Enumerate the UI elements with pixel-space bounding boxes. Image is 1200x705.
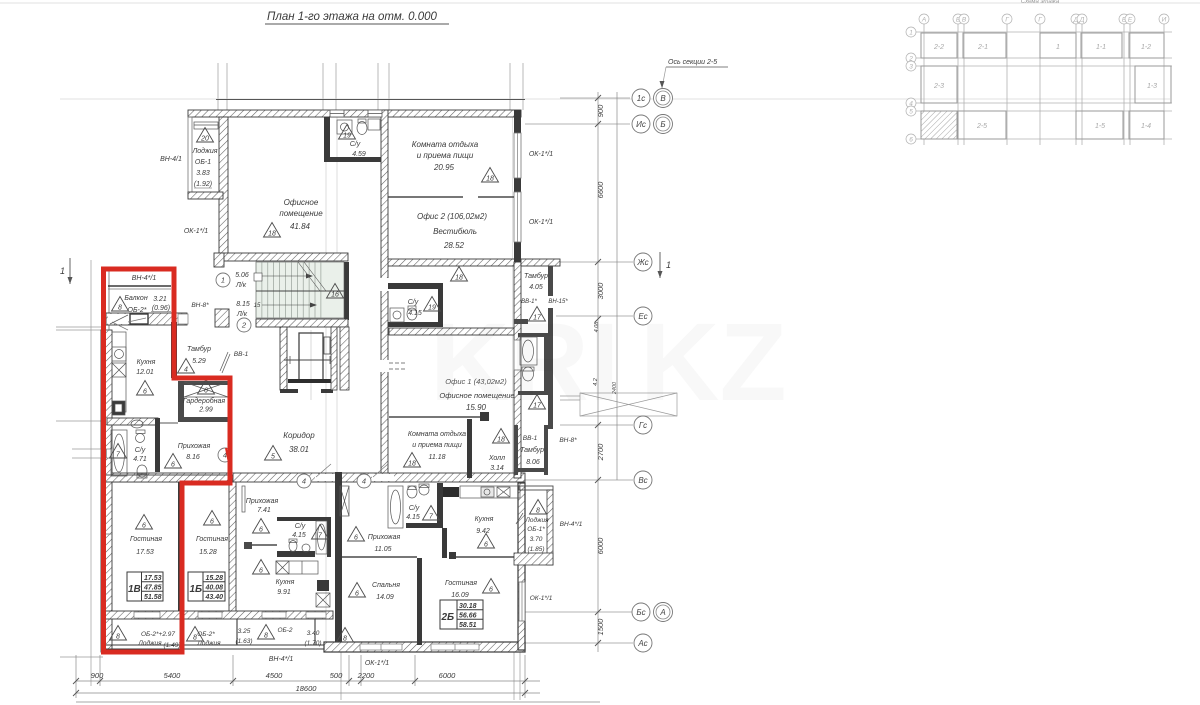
svg-text:ВН-8*: ВН-8*	[559, 437, 577, 444]
svg-text:С/у: С/у	[135, 447, 146, 454]
svg-text:1с: 1с	[637, 94, 645, 103]
svg-text:4.05: 4.05	[529, 284, 543, 291]
svg-text:1Б: 1Б	[190, 584, 203, 595]
svg-text:18: 18	[408, 461, 416, 468]
svg-text:С/у: С/у	[409, 505, 420, 512]
svg-text:47.85: 47.85	[143, 585, 162, 592]
svg-text:3.21: 3.21	[153, 296, 167, 303]
svg-text:19: 19	[343, 133, 351, 140]
svg-text:Б: Б	[660, 120, 665, 129]
svg-text:15.28: 15.28	[206, 575, 224, 582]
svg-text:KZ: KZ	[640, 301, 787, 424]
svg-text:900: 900	[596, 104, 605, 117]
svg-text:5: 5	[271, 454, 275, 461]
svg-text:2.99: 2.99	[198, 407, 213, 414]
svg-text:4500: 4500	[266, 671, 284, 680]
svg-text:3000: 3000	[596, 282, 605, 300]
svg-text:(1.49): (1.49)	[164, 642, 181, 649]
svg-text:500: 500	[330, 671, 343, 680]
svg-text:41.84: 41.84	[290, 222, 311, 231]
svg-text:Лоджия: Лоджия	[191, 147, 217, 155]
svg-text:8: 8	[343, 636, 347, 643]
svg-text:Г: Г	[1005, 17, 1009, 24]
svg-text:18: 18	[497, 437, 505, 444]
svg-text:8.06: 8.06	[526, 459, 540, 466]
svg-text:ВВ-1: ВВ-1	[523, 435, 538, 442]
svg-text:56.66: 56.66	[459, 613, 477, 620]
svg-text:ОК-1*/1: ОК-1*/1	[184, 228, 208, 235]
svg-text:ОК-1*/1: ОК-1*/1	[529, 151, 553, 158]
svg-text:6: 6	[909, 137, 913, 144]
svg-text:ОБ-2: ОБ-2	[277, 627, 292, 634]
svg-text:58.51: 58.51	[459, 622, 477, 629]
svg-text:1В: 1В	[128, 584, 141, 595]
svg-text:Бс: Бс	[636, 608, 645, 617]
svg-text:8: 8	[536, 508, 540, 515]
svg-text:16.09: 16.09	[451, 592, 469, 599]
svg-text:А: А	[921, 17, 926, 24]
svg-text:1-1: 1-1	[1096, 44, 1106, 51]
svg-text:Прихожая: Прихожая	[178, 443, 211, 450]
svg-text:ВН-4/1: ВН-4/1	[160, 156, 182, 163]
svg-text:Схема этажа: Схема этажа	[1021, 0, 1060, 5]
svg-text:6: 6	[484, 542, 488, 549]
svg-text:20.95: 20.95	[433, 163, 455, 172]
svg-text:4.15: 4.15	[292, 532, 306, 539]
svg-text:3.14: 3.14	[490, 465, 504, 472]
svg-text:17.53: 17.53	[144, 575, 162, 582]
svg-text:14.09: 14.09	[376, 594, 394, 601]
svg-text:С/у: С/у	[408, 299, 419, 306]
svg-text:Офисное: Офисное	[284, 198, 319, 207]
svg-text:9.91: 9.91	[277, 589, 291, 596]
svg-text:2Б: 2Б	[441, 612, 455, 623]
svg-text:Балкон: Балкон	[124, 295, 148, 302]
svg-text:ОБ-1: ОБ-1	[195, 159, 211, 166]
svg-text:и приема пищи: и приема пищи	[412, 442, 462, 449]
svg-text:4: 4	[362, 477, 366, 486]
svg-text:В: В	[962, 17, 967, 24]
svg-text:Ис: Ис	[636, 120, 646, 129]
svg-text:ОБ-2*+2.97: ОБ-2*+2.97	[141, 631, 175, 638]
svg-text:6600: 6600	[596, 181, 605, 199]
svg-text:Кухня: Кухня	[276, 579, 295, 586]
svg-text:5: 5	[909, 109, 913, 116]
svg-text:ВВ-1: ВВ-1	[234, 351, 249, 358]
svg-text:2-5: 2-5	[976, 123, 987, 130]
svg-text:43.40: 43.40	[205, 594, 224, 601]
svg-text:6: 6	[210, 519, 214, 526]
svg-text:ВН-4*/1: ВН-4*/1	[560, 521, 583, 528]
svg-text:3.83: 3.83	[196, 170, 210, 177]
svg-text:Гостиная: Гостиная	[445, 580, 477, 587]
svg-text:30.18: 30.18	[459, 603, 477, 610]
svg-text:1-3: 1-3	[1147, 83, 1157, 90]
svg-text:6: 6	[355, 591, 359, 598]
svg-text:4: 4	[184, 367, 188, 374]
svg-text:6000: 6000	[596, 537, 605, 555]
svg-text:1500: 1500	[596, 618, 605, 636]
svg-text:Лоджия: Лоджия	[137, 639, 162, 647]
svg-text:Л/к: Л/к	[235, 282, 247, 289]
svg-text:1-2: 1-2	[1141, 44, 1151, 51]
svg-text:Спальня: Спальня	[372, 582, 400, 589]
svg-text:6: 6	[259, 568, 263, 575]
svg-text:Ось секции 2-5: Ось секции 2-5	[668, 59, 717, 66]
svg-text:Д: Д	[1079, 17, 1085, 24]
svg-text:8.15: 8.15	[236, 301, 250, 308]
svg-text:Прихожая: Прихожая	[368, 534, 401, 541]
svg-text:1: 1	[909, 30, 913, 37]
svg-text:Тамбур: Тамбур	[187, 345, 211, 353]
svg-text:4.59: 4.59	[352, 151, 366, 158]
svg-text:И: И	[1162, 17, 1167, 24]
svg-text:3: 3	[909, 64, 913, 71]
svg-text:5400: 5400	[164, 671, 182, 680]
svg-text:2-1: 2-1	[977, 44, 988, 51]
svg-text:2700: 2700	[596, 443, 605, 462]
svg-text:Жс: Жс	[636, 258, 648, 267]
svg-text:ОК-1*/1: ОК-1*/1	[529, 219, 553, 226]
svg-text:12.01: 12.01	[136, 369, 154, 376]
svg-text:7.41: 7.41	[257, 507, 271, 514]
svg-text:Гостиная: Гостиная	[130, 536, 162, 543]
svg-text:Ас: Ас	[637, 639, 647, 648]
svg-text:4.15: 4.15	[406, 514, 420, 521]
svg-text:Гардеробная: Гардеробная	[183, 397, 226, 405]
svg-text:6: 6	[204, 388, 208, 395]
svg-text:ВН-4*/1: ВН-4*/1	[269, 656, 294, 663]
svg-text:Комната отдыха: Комната отдыха	[408, 430, 466, 438]
svg-text:План 1-го этажа на отм. 0.000: План 1-го этажа на отм. 0.000	[267, 11, 438, 23]
svg-text:16: 16	[331, 292, 339, 299]
svg-text:Коридор: Коридор	[283, 431, 315, 440]
svg-text:11.05: 11.05	[375, 546, 392, 553]
svg-text:2-2: 2-2	[933, 44, 944, 51]
svg-text:Е: Е	[1128, 17, 1133, 24]
svg-text:4.15: 4.15	[408, 310, 422, 317]
svg-text:6: 6	[259, 527, 263, 534]
svg-text:KRI: KRI	[430, 301, 619, 424]
svg-text:28.52: 28.52	[443, 241, 465, 250]
svg-text:11.18: 11.18	[429, 454, 446, 461]
svg-text:Г: Г	[1038, 17, 1042, 24]
svg-text:Кухня: Кухня	[137, 359, 156, 366]
svg-text:3.25: 3.25	[238, 628, 251, 635]
svg-text:900: 900	[91, 671, 104, 680]
svg-text:Гостиная: Гостиная	[196, 536, 228, 543]
svg-text:ОК-1*/1: ОК-1*/1	[365, 660, 389, 667]
svg-text:51.58: 51.58	[144, 594, 162, 601]
svg-text:ОК-1*/1: ОК-1*/1	[530, 595, 553, 602]
svg-text:6: 6	[143, 389, 147, 396]
svg-text:Прихожая: Прихожая	[246, 498, 279, 505]
svg-text:Лоджия: Лоджия	[524, 516, 549, 524]
svg-text:6000: 6000	[439, 671, 457, 680]
svg-text:2200: 2200	[357, 671, 376, 680]
svg-text:(1.63): (1.63)	[236, 638, 253, 645]
svg-text:Л/к: Л/к	[236, 311, 248, 318]
svg-text:3.40: 3.40	[307, 630, 320, 637]
svg-text:3.70: 3.70	[530, 536, 543, 543]
svg-text:ОБ-1*: ОБ-1*	[527, 526, 545, 533]
svg-text:1: 1	[60, 266, 65, 276]
svg-text:40.08: 40.08	[205, 585, 224, 592]
svg-text:8.16: 8.16	[186, 454, 200, 461]
svg-text:В: В	[660, 94, 666, 103]
svg-text:(1.92): (1.92)	[194, 181, 212, 188]
svg-text:5.29: 5.29	[192, 358, 206, 365]
svg-text:2-3: 2-3	[933, 83, 944, 90]
svg-text:Вестибюль: Вестибюль	[433, 227, 477, 236]
svg-text:Лоджия: Лоджия	[196, 639, 221, 647]
svg-text:6: 6	[142, 523, 146, 530]
svg-text:18600: 18600	[296, 684, 318, 693]
svg-text:С/у: С/у	[295, 523, 306, 530]
svg-text:и приема пищи: и приема пищи	[417, 151, 474, 160]
svg-text:Офис 2 (106,02м2): Офис 2 (106,02м2)	[417, 212, 487, 221]
svg-text:4.71: 4.71	[133, 456, 147, 463]
svg-text:1: 1	[666, 260, 671, 270]
svg-text:38.01: 38.01	[289, 445, 309, 454]
svg-text:ОБ-2*: ОБ-2*	[128, 307, 147, 314]
svg-text:(1.70): (1.70)	[305, 640, 322, 647]
svg-text:(1.85): (1.85)	[528, 546, 545, 553]
svg-text:18: 18	[268, 231, 276, 238]
svg-text:17.53: 17.53	[136, 549, 154, 556]
svg-text:8: 8	[116, 634, 120, 641]
svg-text:6: 6	[489, 587, 493, 594]
svg-text:5.06: 5.06	[235, 272, 249, 279]
svg-text:С/у: С/у	[350, 141, 361, 148]
svg-text:1-4: 1-4	[1141, 123, 1151, 130]
svg-text:Холл: Холл	[488, 455, 505, 462]
svg-text:9.42: 9.42	[476, 528, 490, 535]
svg-text:6: 6	[354, 535, 358, 542]
svg-text:8: 8	[193, 635, 197, 642]
svg-text:15: 15	[254, 303, 261, 309]
svg-text:18: 18	[486, 176, 494, 183]
svg-text:ВН-8*: ВН-8*	[191, 302, 209, 309]
svg-text:Вс: Вс	[638, 476, 647, 485]
svg-text:8: 8	[264, 633, 268, 640]
svg-text:(0.96): (0.96)	[152, 305, 170, 312]
svg-text:1: 1	[1056, 44, 1060, 51]
svg-text:Комната отдыха: Комната отдыха	[412, 140, 479, 149]
svg-text:1: 1	[221, 276, 225, 285]
svg-text:20: 20	[200, 136, 209, 143]
svg-text:2: 2	[241, 321, 247, 330]
svg-text:6: 6	[171, 462, 175, 469]
svg-text:А: А	[659, 608, 665, 617]
svg-text:помещение: помещение	[279, 209, 323, 218]
svg-text:18: 18	[455, 275, 463, 282]
svg-text:Тамбур: Тамбур	[520, 446, 544, 454]
svg-text:ВН-4*/1: ВН-4*/1	[132, 275, 157, 282]
svg-text:Кухня: Кухня	[475, 516, 494, 523]
svg-text:Тамбур: Тамбур	[524, 272, 548, 280]
svg-text:4: 4	[302, 477, 306, 486]
svg-text:15.28: 15.28	[199, 549, 217, 556]
svg-text:1-5: 1-5	[1095, 123, 1105, 130]
svg-text:8: 8	[118, 305, 122, 312]
